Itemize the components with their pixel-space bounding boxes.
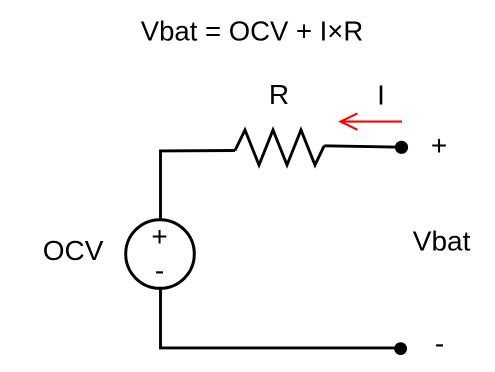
wire: resistor to positive terminal [324, 146, 401, 147]
current arrow I (red, pointing left) [341, 113, 402, 129]
svg-text:+: + [431, 130, 447, 161]
wire: top-left horizontal from corner to resistor [161, 149, 236, 152]
svg-text:+: + [151, 221, 167, 252]
wire: left vertical from corner down to source top [159, 150, 162, 221]
wire: source bottom down and across to negative terminal [161, 289, 401, 348]
voltage source OCV (circle) [126, 220, 195, 289]
svg-text:-: - [435, 328, 444, 359]
svg-text:Vbat = OCV + I×R: Vbat = OCV + I×R [141, 15, 363, 46]
resistor R (zigzag body) [235, 130, 324, 165]
node: positive terminal dot [395, 141, 408, 154]
node: negative terminal dot [394, 342, 407, 355]
svg-text:R: R [269, 79, 289, 110]
svg-text:-: - [155, 255, 164, 286]
svg-text:OCV: OCV [43, 235, 104, 266]
svg-text:Vbat: Vbat [413, 226, 471, 257]
svg-text:I: I [377, 79, 385, 110]
